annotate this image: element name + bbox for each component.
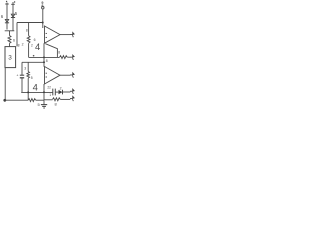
svg-text:8: 8 (41, 4, 43, 8)
wire left branch 2 vertical (12, 2, 14, 31)
wire U1B output (60, 74, 70, 76)
diode D1 (5, 19, 9, 22)
wire bar to resistor (9, 31, 11, 36)
svg-text:8: 8 (26, 28, 28, 32)
terminal tick branch 2 (11, 3, 15, 5)
diode D2 (11, 14, 15, 17)
svg-text:6: 6 (13, 39, 15, 43)
junction dot rail x42.7 (42, 22, 44, 24)
svg-text:5: 5 (31, 76, 33, 80)
junction dot x44 y57 (43, 56, 45, 58)
terminal flag out1 (70, 31, 75, 37)
resistor R6 small vertical zigzag (27, 72, 30, 79)
wire bottom rail left (5, 99, 28, 101)
diode D3 (59, 90, 63, 94)
wire resistor to terminal (60, 98, 70, 100)
svg-text:8: 8 (18, 43, 20, 47)
terminal flag out2 (70, 54, 75, 60)
wire x44 vertical between stages (43, 43, 45, 67)
svg-text:22: 22 (47, 85, 51, 89)
junction dot x44 y92 (43, 91, 45, 93)
svg-text:2: 2 (22, 43, 24, 47)
svg-text:8: 8 (58, 51, 60, 55)
wire cap line y92 (21, 91, 53, 93)
capacitor C3 (52, 89, 54, 96)
resistor R1 vertical zigzag (8, 36, 11, 44)
wire below U1B (43, 84, 45, 100)
svg-text:6: 6 (1, 14, 4, 19)
terminal tick branch 1 (5, 3, 9, 5)
op-amp U1A (45, 26, 61, 43)
svg-text:2: 2 (60, 87, 62, 91)
capacitor C2 electrolytic (20, 74, 24, 76)
svg-text:4: 4 (33, 82, 38, 93)
wire y57 rail (29, 56, 60, 58)
terminal flag out4 (70, 88, 75, 94)
terminal top circle (42, 7, 44, 9)
wire resistor to box (9, 43, 11, 46)
pin marks U1B (46, 72, 47, 74)
terminal flag out5 (70, 95, 75, 101)
svg-text:4: 4 (35, 41, 40, 52)
wire U1A output (60, 34, 70, 36)
speck label near rail (33, 55, 35, 57)
svg-text:3: 3 (8, 55, 12, 62)
wire box bottom to rail (4, 68, 6, 101)
pin marks U1A (46, 32, 47, 34)
svg-text:5: 5 (38, 102, 41, 107)
wire vertical x17 (16, 23, 18, 47)
wire top terminal down (42, 9, 44, 28)
wire feedback diagonal (45, 44, 57, 58)
wire y62 line (22, 61, 44, 63)
wire rail to ground junction (36, 99, 44, 101)
svg-text:5: 5 (15, 11, 18, 16)
wire joining bar under diodes (5, 30, 15, 32)
svg-text:1: 1 (49, 93, 51, 97)
wire left branch 1 vertical (6, 3, 8, 30)
wire rail right of ground (44, 99, 53, 101)
junction dot bottom left (3, 99, 6, 102)
resistor R9 horizontal zigzag (53, 98, 61, 101)
wire rail y22 (17, 22, 43, 24)
box IC1 (5, 47, 16, 68)
terminal flag out3 (70, 72, 75, 78)
svg-text:8: 8 (46, 59, 48, 63)
resistor R7 horizontal zigzag (60, 56, 68, 59)
junction dot x44 y62 (43, 61, 45, 63)
wire vertical x22 with cap (21, 62, 23, 75)
ground (43, 100, 45, 104)
junction dot x28 on y92 (27, 91, 29, 93)
svg-text:3: 3 (24, 67, 26, 71)
svg-text:8: 8 (55, 102, 58, 107)
wire vertical x29 upper (28, 23, 30, 36)
wire vertical x28 lower (27, 62, 29, 71)
svg-text:+: + (16, 74, 18, 78)
resistor R2 vertical zigzag (27, 36, 30, 43)
svg-text:2: 2 (31, 44, 33, 48)
op-amp U1B (45, 67, 61, 85)
resistor R8 horizontal zigzag (28, 99, 36, 102)
